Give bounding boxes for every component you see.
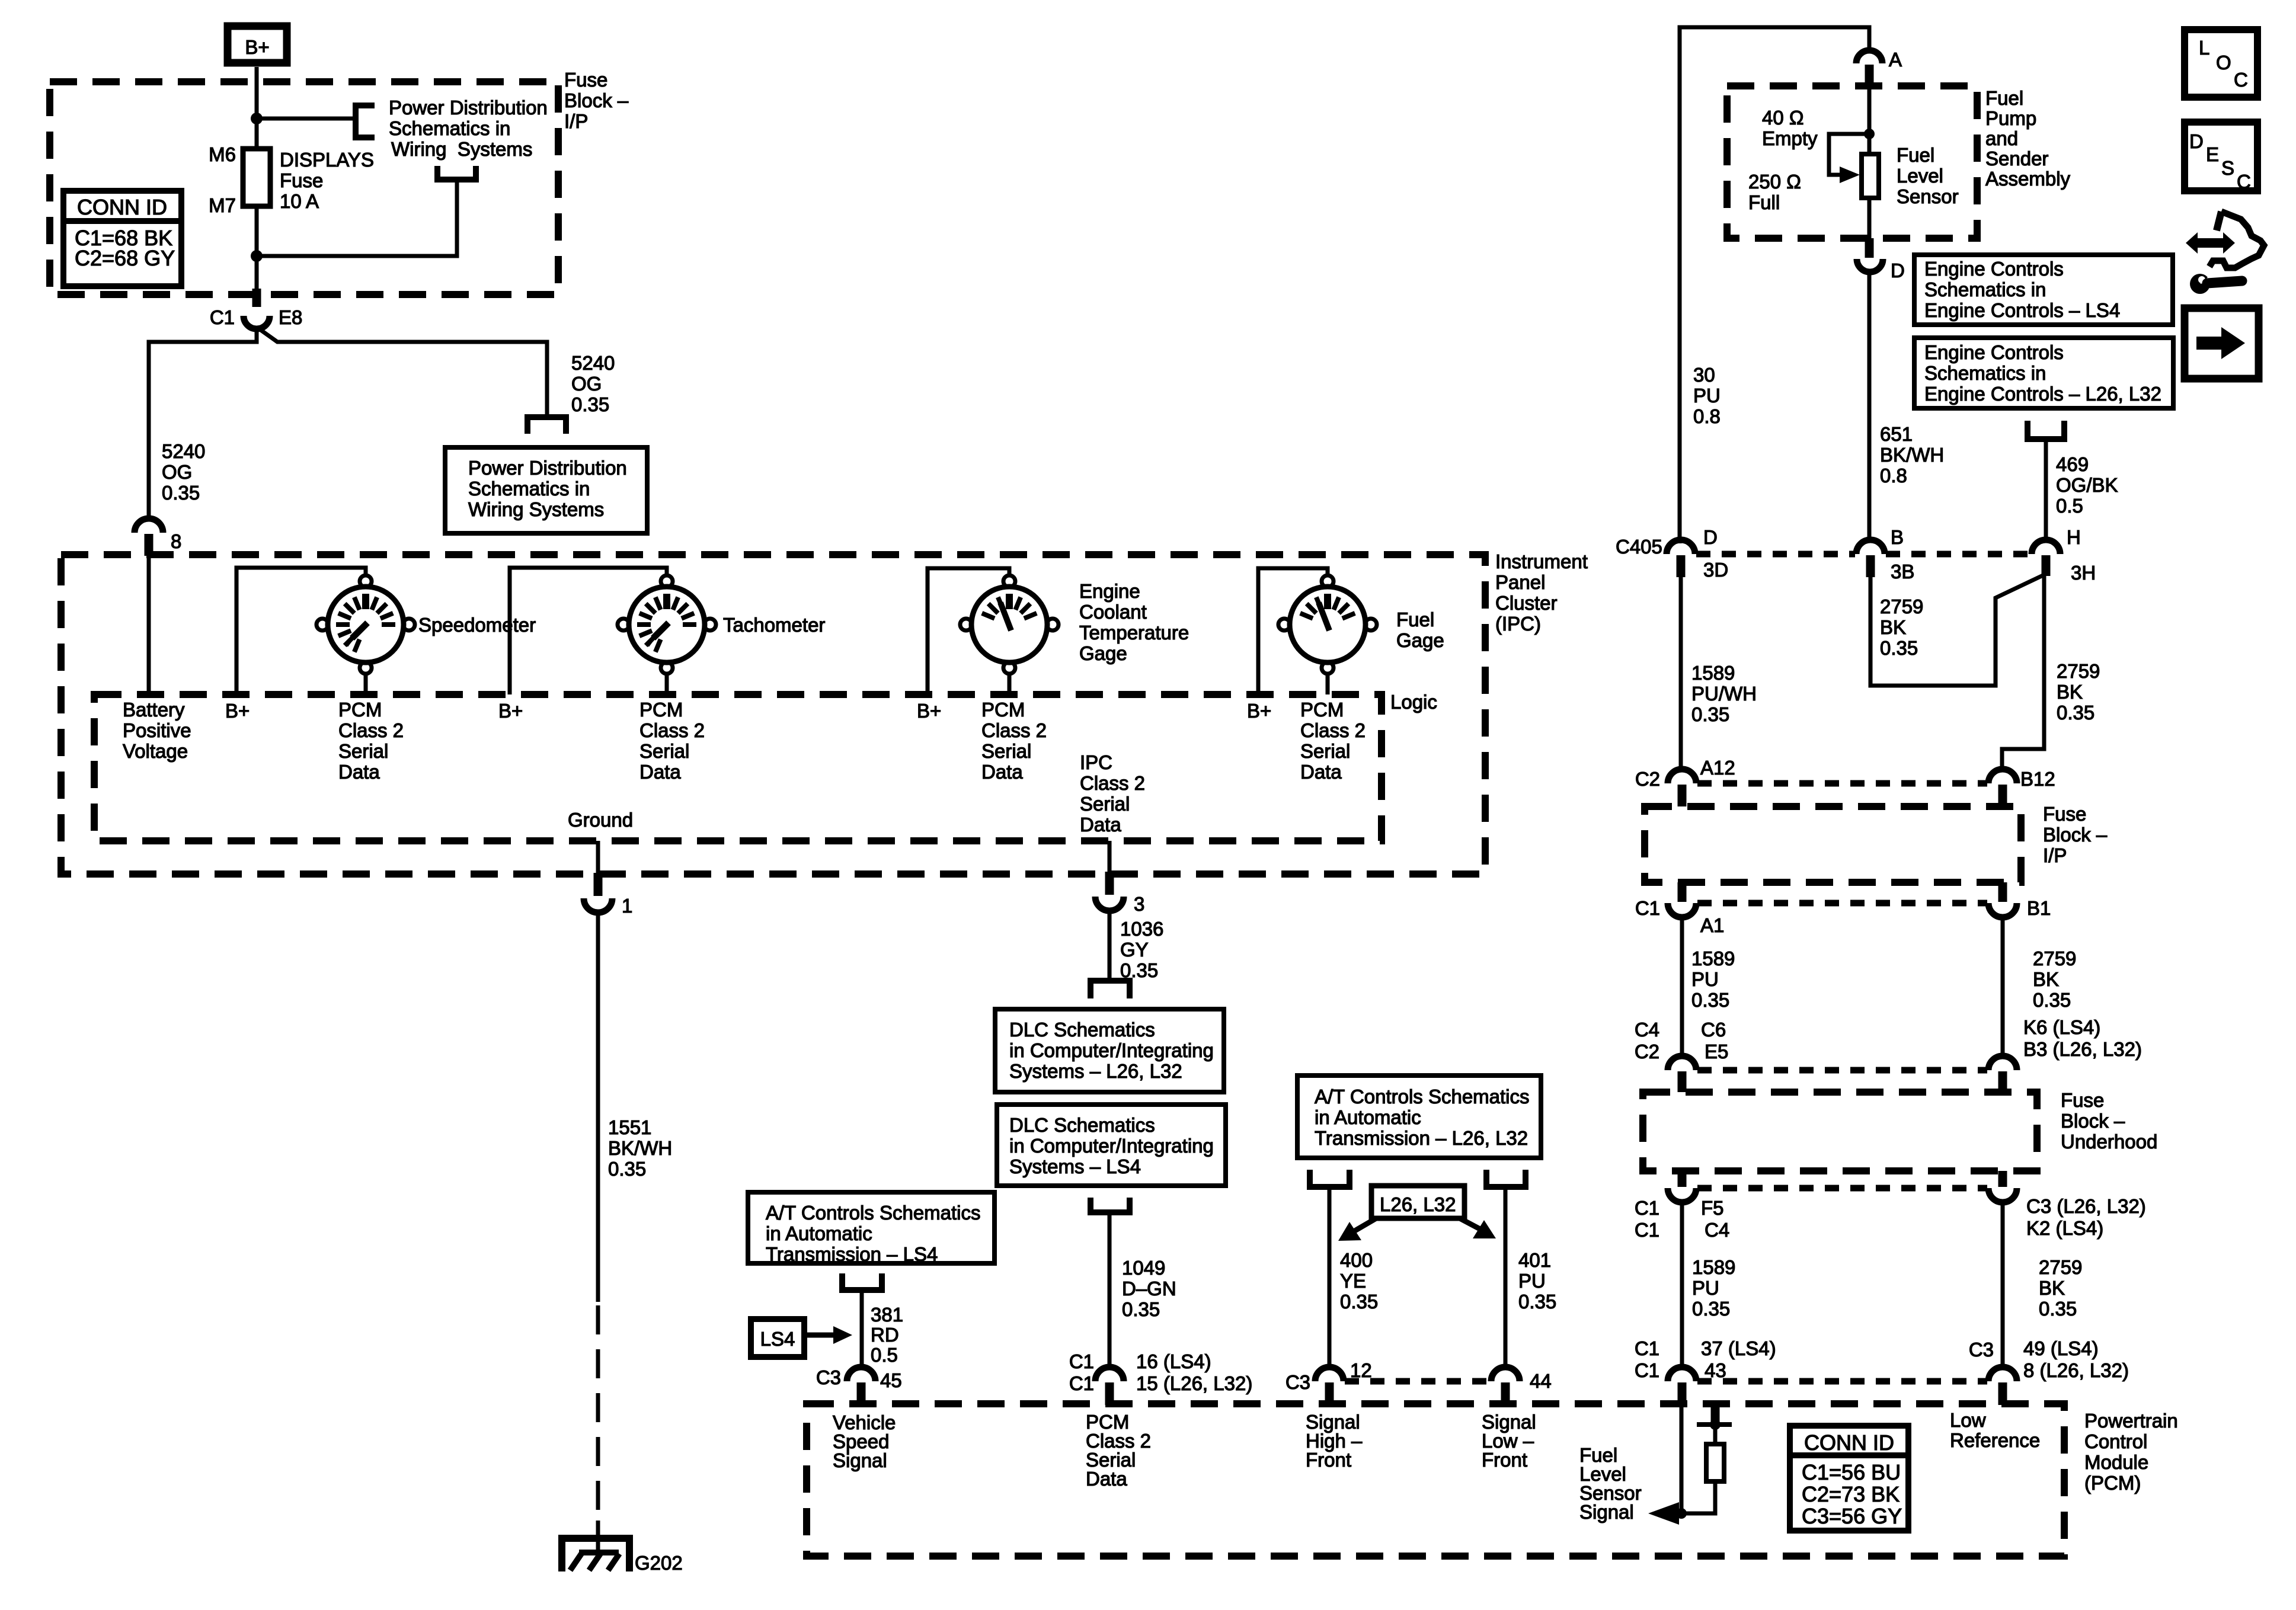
svg-text:F5: F5 [1701,1197,1724,1219]
svg-text:C1: C1 [1069,1350,1094,1372]
svg-text:1589: 1589 [1692,1256,1735,1278]
svg-text:C1: C1 [1635,1197,1659,1219]
svg-text:Sensor: Sensor [1897,185,1959,207]
svg-text:Gage: Gage [1079,642,1127,664]
svg-text:L: L [2199,37,2209,59]
wire label 5240 OG 0.35 (left) [162,440,205,504]
connector arc A1 [1668,903,1696,917]
svg-text:3D: 3D [1703,559,1728,581]
svg-text:PCM: PCM [338,699,382,721]
wire ground pin inside IPC [596,841,600,873]
off-page hook signal low [1486,1170,1526,1187]
svg-text:Instrument: Instrument [1495,550,1588,572]
svg-text:Panel: Panel [1495,571,1545,593]
label Fuse Block I/P [564,69,629,132]
dotted connector line A12-B12 [1697,780,1987,787]
svg-text:Logic: Logic [1390,691,1437,713]
wire E8 down-left branch [149,329,257,518]
pin tick serial data pin 3 [1105,872,1114,895]
wire 400 YE signal high front [1328,1187,1332,1368]
label Fuel Gage [1396,609,1444,651]
svg-text:BK: BK [2033,968,2059,990]
node junction fuel level sensor signal [1676,1508,1687,1519]
svg-text:PU: PU [1693,385,1721,406]
svg-text:O: O [2216,52,2231,73]
wire B+ to fuse M6 [255,67,259,149]
svg-text:B+: B+ [1247,700,1271,722]
label 250 ohm Full [1748,171,1801,213]
connector arc pin 12 [1315,1367,1344,1381]
svg-text:469: 469 [2056,453,2089,475]
svg-text:0.35: 0.35 [608,1158,646,1180]
svg-text:E5: E5 [1705,1041,1728,1062]
svg-text:2759: 2759 [2057,660,2100,682]
svg-text:Pump: Pump [1985,107,2036,129]
off-page hook signal high [1310,1170,1350,1187]
svg-text:C1=56 BU: C1=56 BU [1802,1460,1901,1484]
svg-text:K6 (LS4): K6 (LS4) [2023,1016,2100,1038]
dotted connector line underhood bottom [1697,1185,1987,1192]
svg-text:IPC: IPC [1080,751,1112,773]
pin tick C1 at fuse block exit [252,289,261,307]
svg-text:0.5: 0.5 [871,1344,898,1366]
svg-text:Fuse: Fuse [2061,1089,2104,1111]
fuel pump and sender assembly dashed box [1727,86,1977,238]
svg-text:Full: Full [1748,191,1780,213]
svg-text:C6: C6 [1701,1019,1726,1041]
connector arc pin 43 [1668,1367,1696,1381]
svg-text:in Automatic: in Automatic [766,1222,872,1244]
node junction at B+ feed [251,113,263,124]
svg-text:RD: RD [871,1324,899,1346]
svg-text:Speedometer: Speedometer [418,614,536,636]
svg-text:1: 1 [622,895,632,917]
svg-text:Data: Data [1086,1468,1127,1490]
svg-text:40 Ω: 40 Ω [1762,107,1804,129]
svg-text:Schematics in: Schematics in [468,478,590,500]
svg-text:Empty: Empty [1762,127,1818,149]
fuse block underhood dashed box [1643,1092,2037,1171]
fuse block I/P dashed box (left) [50,82,558,295]
label Power Distribution Schematics in Wiring Systems (text) [389,97,548,160]
svg-text:GY: GY [1120,939,1149,961]
svg-text:in Computer/Integrating: in Computer/Integrating [1009,1135,1214,1157]
svg-text:C1: C1 [1635,1219,1659,1241]
connector arc pin 3 [1095,897,1124,911]
svg-text:Class 2: Class 2 [1080,772,1145,794]
svg-text:Module: Module [2084,1451,2148,1473]
svg-text:Class 2: Class 2 [981,719,1047,741]
svg-text:Data: Data [1300,761,1342,783]
wire label 1551 BK/WH 0.35 [608,1116,672,1180]
L26 L32 callout box [1371,1186,1464,1218]
pin labels K6 B3 [2023,1016,2142,1060]
pin tick pin 12 [1325,1382,1334,1405]
powertrain control module PCM dashed box [807,1404,2064,1556]
svg-text:401: 401 [1518,1249,1551,1271]
svg-text:Serial: Serial [981,740,1031,762]
svg-text:Fuel: Fuel [1985,87,2023,109]
connector arc F5 [1668,1188,1696,1202]
svg-text:PU: PU [1692,1277,1719,1299]
svg-text:C3=56 GY: C3=56 GY [1802,1504,1902,1528]
wire label 1049 D-GN 0.35 [1122,1257,1176,1320]
wire stub to ground symbol [596,1521,600,1553]
svg-text:BK: BK [2057,681,2083,703]
label Fuel Level Sensor Signal [1579,1444,1642,1523]
wire label 469 OG/BK 0.5 [2056,453,2118,517]
svg-text:Class 2: Class 2 [338,719,404,741]
svg-text:(PCM): (PCM) [2084,1472,2141,1494]
svg-text:DISPLAYS: DISPLAYS [280,149,374,171]
reference box A/T Controls Schematics L26 L32 [1297,1076,1541,1158]
svg-text:0.35: 0.35 [1692,1298,1730,1320]
svg-text:Serial: Serial [639,740,689,762]
svg-text:Sender: Sender [1985,148,2048,169]
pin labels 49 8 [2023,1337,2129,1381]
svg-text:PCM: PCM [639,699,683,721]
reference box DLC Schematics LS4 [997,1105,1226,1186]
wire 401 PU signal low front [1504,1187,1508,1368]
connector arc pin 49 [1988,1367,2017,1381]
svg-text:Assembly: Assembly [1985,168,2071,190]
wire label 1589 PU/WH 0.35 [1691,662,1757,725]
svg-text:0.8: 0.8 [1880,465,1907,486]
svg-text:0.35: 0.35 [1122,1298,1160,1320]
wire resistor top lead [1713,1425,1718,1444]
wire label 381 RD 0.5 [871,1304,903,1366]
connector arc A12 [1668,769,1696,783]
svg-text:A: A [1889,49,1902,71]
svg-text:E8: E8 [279,306,302,328]
reference box A/T Controls Schematics LS4 [748,1192,994,1265]
svg-text:BK/WH: BK/WH [608,1137,672,1159]
svg-text:CONN ID: CONN ID [1804,1430,1894,1455]
svg-text:Positive: Positive [123,719,191,741]
svg-text:Wiring Systems: Wiring Systems [468,498,604,520]
svg-text:Voltage: Voltage [123,740,188,762]
label Fuel Level Sensor [1897,144,1959,207]
svg-text:D–GN: D–GN [1122,1278,1176,1299]
wire 1589 PU/WH from 3D [1679,577,1683,770]
svg-text:10 A: 10 A [280,190,319,212]
svg-text:C1: C1 [210,306,235,328]
wire junction to wiring-systems hook [257,181,457,256]
pin tick C1 left [1678,882,1687,902]
svg-text:44: 44 [1530,1370,1552,1392]
svg-text:C2=68 GY: C2=68 GY [75,246,175,270]
label Signal Low Front [1482,1411,1536,1471]
svg-text:Data: Data [338,761,380,783]
svg-text:B3 (L26, L32): B3 (L26, L32) [2023,1038,2142,1060]
ground symbol G202 [562,1538,629,1571]
connector arc D at C405 [1667,540,1695,554]
IPC logic dashed box [94,694,1382,841]
pin tick underhood bottom right [1998,1171,2007,1187]
node junction below fuse [251,250,263,262]
wire fuel pump feed top run [1680,27,1869,543]
svg-text:0.35: 0.35 [1340,1291,1378,1313]
label 40 ohm Empty [1762,107,1818,149]
wire 469 OG/BK down to C405 H [2044,439,2048,541]
instrument panel cluster IPC dashed box [61,555,1485,874]
svg-text:BK: BK [2039,1277,2065,1299]
svg-text:Systems – L26, L32: Systems – L26, L32 [1009,1060,1182,1082]
dotted connector line C405 right [1886,551,2030,558]
svg-text:B: B [1891,526,1904,548]
svg-text:C405: C405 [1616,536,1662,558]
pin labels C1 C1 (left lower) [1635,1197,1659,1241]
label PCM Class 2 Serial Data (speedometer) [338,699,404,783]
svg-text:5240: 5240 [571,352,615,374]
pin tick resistor pin [1711,1405,1720,1423]
svg-text:K2 (LS4): K2 (LS4) [2026,1217,2103,1239]
wire label 2759 BK 0.35 (upper) [1880,596,1923,659]
svg-text:D: D [2189,130,2204,152]
svg-text:DLC Schematics: DLC Schematics [1009,1114,1155,1136]
label Fuse Block Underhood [2061,1089,2157,1153]
label PCM Class 2 Serial Data (coolant gauge) [981,699,1047,783]
pin labels C1 C1 (PCM serial) [1069,1350,1094,1394]
svg-text:PU: PU [1518,1270,1546,1292]
wire label 1589 PU 0.35 (lower) [1692,1256,1735,1320]
svg-text:Front: Front [1306,1449,1351,1471]
svg-text:L26, L32: L26, L32 [1380,1193,1456,1215]
connector arc D (pump) [1857,259,1883,272]
svg-text:Schematics in: Schematics in [389,117,510,139]
svg-text:C1: C1 [1069,1372,1094,1394]
pin labels C1 C1 (PCM fuel signal) [1635,1337,1659,1381]
svg-text:OG: OG [162,461,192,483]
label Battery Positive Voltage [123,699,191,762]
wire B+ stub coolant gauge [928,568,1009,694]
pin tick B12 [1998,785,2007,806]
pin tick PCM serial pin [1105,1382,1114,1405]
reference box Engine Controls L26 L32 [1914,338,2173,408]
LS4 flag box [751,1319,804,1357]
wire wiper loop [1829,134,1869,175]
wire label 30 PU 0.8 [1693,364,1721,427]
icon LOC box [2185,30,2257,97]
label Engine Coolant Temperature Gage [1079,580,1189,664]
pin labels 37 43 [1701,1337,1776,1381]
off-page hook above DLC box L26 L32 [1091,981,1130,998]
svg-text:1049: 1049 [1122,1257,1165,1279]
speedometer gauge [316,575,415,674]
wire 651 BK/WH down to C405 [1868,272,1872,541]
svg-text:0.35: 0.35 [2039,1298,2077,1320]
svg-text:1589: 1589 [1691,948,1735,969]
battery positive symbol B+ [228,26,287,63]
svg-text:OG: OG [571,373,602,395]
svg-text:381: 381 [871,1304,903,1326]
svg-text:2759: 2759 [2039,1256,2082,1278]
icon service (arrows and wrench) [2186,212,2264,294]
svg-text:OG/BK: OG/BK [2056,474,2118,496]
svg-text:Engine Controls: Engine Controls [1924,258,2064,280]
svg-text:Engine Controls: Engine Controls [1924,341,2064,363]
svg-text:B1: B1 [2027,897,2051,919]
svg-text:0.35: 0.35 [162,482,200,504]
svg-text:Data: Data [1080,814,1121,836]
svg-text:8: 8 [171,530,181,552]
svg-text:A/T Controls Schematics: A/T Controls Schematics [766,1202,981,1224]
wire label 2759 BK 0.35 (lower) [2057,660,2100,724]
svg-text:Engine: Engine [1079,580,1140,602]
svg-text:0.35: 0.35 [1691,703,1729,725]
wire label 2759 BK 0.35 (mid) [2033,948,2076,1011]
svg-text:3: 3 [1134,893,1144,915]
wire 1589 PU lower [1680,1202,1684,1368]
svg-text:0.35: 0.35 [1691,989,1729,1011]
reference box DLC Schematics L26 L32 [995,1009,1224,1092]
label Fuel Pump and Sender Assembly [1985,87,2071,190]
connector arc B12 [1988,769,2017,783]
svg-text:Fuse: Fuse [564,69,607,91]
svg-text:B+: B+ [225,700,250,722]
svg-text:D: D [1891,260,1905,281]
svg-text:49 (LS4): 49 (LS4) [2023,1337,2099,1359]
pin tick D [1865,238,1874,258]
wire fuel level sensor signal inside PCM [1680,1405,1684,1513]
svg-text:Power Distribution: Power Distribution [468,457,627,479]
wire label 651 BK/WH 0.8 [1880,423,1944,486]
svg-text:C2: C2 [1635,1041,1659,1062]
svg-text:B+: B+ [498,700,523,722]
pin tick pin 45 [857,1382,866,1405]
wire 2759 BK lower [2001,1202,2005,1368]
connector arc B at C405 [1856,540,1885,554]
svg-text:in Automatic: in Automatic [1315,1106,1421,1128]
dotted connector line 43-49 [1697,1378,1987,1385]
tachometer gauge [618,575,716,674]
svg-text:(IPC): (IPC) [1495,613,1541,635]
svg-text:0.35: 0.35 [2033,989,2071,1011]
svg-text:Schematics in: Schematics in [1924,279,2046,300]
svg-text:Control: Control [2084,1430,2147,1452]
svg-text:C: C [2234,69,2248,91]
label PCM Class 2 Serial Data (PCM pin) [1086,1411,1151,1490]
pin labels C6 E5 [1701,1019,1728,1062]
svg-text:Gage: Gage [1396,629,1444,651]
pin tick pin 49 [1998,1382,2007,1405]
wire battery positive voltage [147,556,151,694]
svg-text:C1: C1 [1635,897,1660,919]
wire junction to power distribution stub [257,117,356,121]
svg-text:Front: Front [1482,1449,1527,1471]
svg-text:Wiring Systems: Wiring Systems [391,138,532,160]
connector arc H at C405 [2032,540,2060,554]
svg-text:400: 400 [1340,1249,1373,1271]
solid reference box Power Distribution Schematics in Wiring Systems [445,447,647,533]
wire B+ stub tachometer [510,568,667,694]
svg-text:G202: G202 [635,1552,683,1574]
svg-text:Coolant: Coolant [1079,601,1147,623]
svg-text:C4: C4 [1705,1219,1729,1241]
svg-text:PU/WH: PU/WH [1691,683,1757,705]
svg-text:0.35: 0.35 [1880,637,1918,659]
svg-text:BK/WH: BK/WH [1880,444,1944,466]
svg-text:0.35: 0.35 [2057,702,2094,724]
svg-text:Serial: Serial [338,740,388,762]
wire 381 RD vehicle speed [860,1290,864,1368]
svg-text:PU: PU [1691,968,1719,990]
arrow wiper [1840,167,1860,183]
svg-text:Fuse: Fuse [2043,803,2086,825]
svg-text:C3: C3 [1285,1371,1310,1393]
svg-text:S: S [2221,157,2234,179]
svg-text:Low: Low [1950,1409,1986,1431]
svg-text:Ground: Ground [568,809,633,831]
wire 2759 BK from 3B jog to 3H [1870,575,2044,686]
svg-text:1551: 1551 [608,1116,651,1138]
svg-text:CONN ID: CONN ID [77,195,167,219]
svg-text:PCM: PCM [1300,699,1344,721]
wire fuel gauge to PCM serial data pin [1326,674,1330,694]
label Instrument Panel Cluster (IPC) [1495,550,1588,635]
wire B+ stub fuel gauge [1258,568,1328,694]
svg-text:Fuel: Fuel [1396,609,1434,630]
resistor (pull-up) [1706,1444,1724,1481]
wire fuse M7 down to connector C1 [255,206,259,290]
svg-text:Signal: Signal [833,1449,887,1471]
svg-text:Schematics in: Schematics in [1924,362,2046,384]
wire into fuel level sensor [1868,87,1872,154]
svg-text:YE: YE [1340,1270,1366,1292]
off-page hook below DLC LS4 box [1091,1198,1130,1212]
pin labels F5 C4 [1701,1197,1729,1241]
svg-text:C1: C1 [1635,1337,1659,1359]
pin tick 8 into IPC [145,534,154,556]
svg-text:1589: 1589 [1691,662,1735,684]
svg-text:Class 2: Class 2 [639,719,705,741]
svg-text:0.8: 0.8 [1693,405,1721,427]
svg-text:3B: 3B [1891,561,1914,582]
CONN ID table (PCM) [1790,1426,1908,1531]
svg-text:Powertrain: Powertrain [2084,1410,2178,1432]
connector arc pin 44 [1491,1367,1520,1381]
pin tick pin 44 [1501,1382,1510,1405]
icon go-to arrow box [2185,308,2259,379]
svg-text:and: and [1985,127,2018,149]
wire resistor bottom lead [1662,1481,1715,1513]
LS4 arrow to wire [804,1326,852,1344]
pin tick ground pin 1 [594,873,603,896]
callout arrow right [1460,1218,1496,1238]
wire label 1589 PU 0.35 (mid) [1691,948,1735,1011]
CONN ID table (fuse block) [63,191,181,286]
wire coolant gauge to PCM serial data pin [1008,674,1012,694]
svg-text:37 (LS4): 37 (LS4) [1701,1337,1776,1359]
svg-text:Engine Controls – L26, L32: Engine Controls – L26, L32 [1924,383,2161,405]
connector arc B1 [1988,903,2017,917]
pin tick A12 [1678,785,1687,806]
connector arc underhood top right [1988,1056,2017,1070]
connector arc PCM serial pin [1095,1367,1124,1381]
wire 1589 PU mid left [1680,917,1684,1057]
svg-text:Level: Level [1897,165,1943,187]
svg-text:5240: 5240 [162,440,205,462]
fuel level sensor resistor [1862,154,1879,198]
pin tick underhood top left [1678,1071,1687,1092]
resistor top bar [1697,1422,1732,1427]
pin labels C4 C2 [1635,1019,1659,1062]
wire label 2759 BK 0.35 (bottom) [2039,1256,2082,1320]
svg-text:Engine Controls – LS4: Engine Controls – LS4 [1924,299,2120,321]
off-page hook above Power Distribution box [437,166,476,180]
dotted connector line C405 [1696,551,1855,558]
fuse block I/P dashed box (right) [1645,806,2021,882]
